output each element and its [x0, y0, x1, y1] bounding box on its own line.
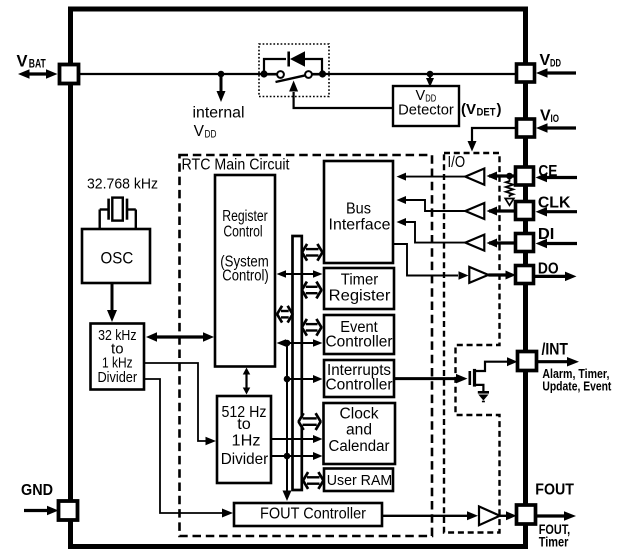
- label Alarm Timer: [542, 366, 609, 381]
- svg-text:(V: (V: [461, 101, 476, 118]
- block Event Controller box: [324, 315, 394, 354]
- wire VBAT-VDD top rail: [78, 73, 518, 75]
- wire Bus Interface to DO buffer: [393, 244, 469, 280]
- label Event Controller: [326, 319, 393, 350]
- block OSC box: [82, 229, 150, 283]
- chip boundary frame: [71, 9, 526, 547]
- switch S1 lever: [276, 75, 306, 82]
- wire bus tap vertical: [286, 343, 288, 492]
- block VDD Detector box: [393, 86, 459, 126]
- buffer CLK input: [465, 203, 484, 219]
- pin VDD: [517, 64, 535, 82]
- buffer DI input: [465, 235, 484, 251]
- crystal X1: [100, 198, 136, 229]
- svg-text:Controller: Controller: [326, 333, 393, 350]
- svg-text:/INT: /INT: [542, 341, 569, 359]
- node clock tap junction: [284, 453, 291, 460]
- svg-text:V: V: [540, 108, 551, 125]
- label Update Event: [542, 379, 612, 394]
- external DI arrow: [536, 239, 578, 249]
- svg-text:Bus: Bus: [346, 200, 371, 217]
- resistor R1 CE pulldown: [505, 179, 514, 205]
- wire FOUT buffer to pin: [500, 511, 517, 520]
- svg-text:DD: DD: [550, 57, 561, 69]
- data bus rectangle: [293, 236, 302, 490]
- label Timer Register: [329, 271, 391, 304]
- label Register Control: [220, 208, 269, 284]
- svg-text:Update, Event: Update, Event: [542, 379, 612, 394]
- bus to Bus Interface block arrow: [302, 244, 322, 261]
- svg-text:DD: DD: [205, 129, 217, 141]
- label FOUT Controller: [260, 505, 367, 522]
- wire CLK buffer to Bus Interface: [397, 196, 466, 211]
- svg-text:FOUT Controller: FOUT Controller: [260, 505, 367, 522]
- label internal: [193, 105, 245, 122]
- external GND arrow: [24, 506, 59, 516]
- svg-text:internal: internal: [193, 105, 245, 122]
- node switch left junction: [260, 70, 267, 77]
- svg-text:and: and: [346, 422, 372, 439]
- label (VDET): [461, 101, 502, 118]
- svg-text:DET: DET: [477, 106, 496, 118]
- block Bus Interface box: [324, 161, 393, 263]
- label DO: [538, 260, 559, 277]
- block FOUT Controller box: [234, 503, 382, 526]
- buffer CE input: [465, 169, 484, 185]
- wire 512Hz divider to Clock Calendar lower: [271, 452, 323, 460]
- svg-text:Calendar: Calendar: [329, 438, 390, 455]
- wire tap down arrow into FOUT Controller: [283, 491, 292, 502]
- pin DI: [516, 234, 534, 252]
- bus to User RAM block arrow: [303, 472, 323, 489]
- svg-text:BAT: BAT: [29, 58, 46, 70]
- svg-text:Detector: Detector: [398, 102, 454, 119]
- label I/O: [448, 154, 466, 171]
- svg-text:Timer: Timer: [539, 534, 569, 549]
- label VDD right: [540, 52, 562, 69]
- label GND: [21, 482, 53, 499]
- Register Control to bus block arrow: [277, 306, 292, 323]
- label DI: [538, 226, 555, 243]
- I/O cell dashed box with transistor notch: [444, 153, 500, 533]
- label VDD Detector: [398, 88, 454, 119]
- wire DI buffer to Bus Interface: [397, 218, 466, 243]
- block 32 kHz to 1 kHz Divider box: [91, 324, 145, 390]
- svg-text:1Hz: 1Hz: [232, 433, 261, 450]
- block User RAM box: [324, 469, 393, 492]
- node interrupts tap junction: [284, 376, 291, 383]
- pin DO: [516, 266, 534, 284]
- label OSC: [101, 249, 134, 267]
- buffer FOUT output: [479, 506, 500, 525]
- buffer DO output: [469, 267, 488, 283]
- label VBAT: [17, 52, 46, 70]
- wire CLK pin to buffer: [487, 207, 516, 216]
- svg-text:FOUT: FOUT: [535, 482, 574, 499]
- svg-text:V: V: [17, 52, 28, 70]
- label Bus Interface: [329, 200, 391, 233]
- wire Register Control to Event Controller double arrow: [277, 339, 323, 347]
- label FOUT comma: [539, 522, 571, 537]
- label RTC Main Circuit: [182, 157, 290, 174]
- svg-text:Divider: Divider: [97, 370, 137, 386]
- pin VBAT: [60, 65, 79, 84]
- svg-text:): ): [497, 101, 502, 118]
- node internal VDD junction: [218, 71, 225, 78]
- block Timer Register box: [324, 268, 394, 309]
- svg-text:to: to: [237, 416, 251, 433]
- svg-text:Register: Register: [329, 287, 391, 304]
- label User RAM: [327, 472, 393, 489]
- wire diode loop: [264, 59, 322, 74]
- label VIO: [540, 108, 559, 125]
- svg-text:Timer: Timer: [341, 271, 379, 288]
- wire DI pin to buffer: [487, 239, 516, 248]
- external VDD arrow: [536, 68, 576, 78]
- svg-text:V: V: [194, 123, 205, 140]
- svg-text:Control): Control): [222, 267, 268, 284]
- bus to Clock Calendar block arrow: [299, 413, 320, 430]
- external FOUT arrow: [536, 511, 576, 521]
- wire FOUT Controller to FOUT buffer: [382, 511, 478, 520]
- svg-text:IO: IO: [551, 113, 560, 125]
- label internal VDD: [194, 123, 217, 141]
- ground Q1 source: [478, 392, 489, 401]
- wire CE pin to buffer: [487, 172, 516, 181]
- svg-text:OSC: OSC: [101, 249, 134, 267]
- svg-text:V: V: [540, 52, 551, 69]
- wire VIO pin to I/O cell: [468, 128, 517, 152]
- wire Register Control to Timer Register double arrow: [277, 270, 323, 278]
- external /INT arrow: [537, 357, 579, 367]
- node register-event junction: [284, 340, 291, 347]
- diode D1 backup switch diode: [289, 51, 305, 66]
- node detector tap junction: [427, 71, 434, 78]
- pin FOUT: [517, 505, 536, 524]
- pin VIO: [517, 119, 535, 137]
- label CE: [538, 163, 557, 180]
- svg-text:GND: GND: [21, 482, 53, 499]
- block 512 Hz to 1Hz Divider box: [217, 396, 271, 483]
- node CE pulldown junction: [506, 173, 513, 180]
- external DO arrow: [534, 272, 577, 282]
- label Interrupts Controller: [326, 362, 393, 394]
- svg-text:Control: Control: [223, 223, 262, 240]
- wire 32kHz divider to FOUT controller: [144, 379, 233, 518]
- external CLK arrow: [536, 207, 578, 217]
- svg-text:Divider: Divider: [221, 451, 269, 468]
- svg-text:User RAM: User RAM: [327, 472, 393, 489]
- label 32 kHz divider: [97, 328, 137, 386]
- pin GND: [59, 501, 78, 520]
- wire Interrupts Controller to transistor gate: [394, 374, 468, 384]
- label Clock and Calendar: [329, 405, 390, 454]
- wire DO buffer to pin: [488, 271, 516, 280]
- svg-text:Controller: Controller: [326, 377, 393, 394]
- label /INT: [542, 341, 569, 359]
- external CE arrow: [536, 173, 578, 183]
- label 512 Hz divider: [221, 404, 269, 468]
- wire 512Hz divider to Clock Calendar upper: [271, 435, 323, 443]
- svg-text:RTC Main Circuit: RTC Main Circuit: [182, 157, 290, 174]
- wire detector to switch control: [289, 81, 393, 109]
- external VBAT double arrow: [18, 69, 58, 79]
- wire tap to Interrupts Controller: [287, 375, 323, 383]
- svg-text:Clock: Clock: [340, 405, 379, 422]
- label 32.768 kHz: [87, 176, 158, 193]
- label Timer: [539, 534, 569, 549]
- bus to Event Controller block arrow: [302, 319, 321, 336]
- node switch right junction: [319, 70, 326, 77]
- wire Register Control to 512Hz divider vertical double arrow: [243, 368, 251, 395]
- wire 32kHz divider to 512Hz divider: [144, 363, 216, 445]
- pin CE: [516, 167, 534, 185]
- switch S1 contacts: [267, 71, 319, 78]
- wire 32kHz divider to Register Control double arrow: [146, 332, 214, 342]
- pin /INT: [518, 352, 537, 371]
- block Clock and Calendar box: [324, 403, 396, 464]
- internal VDD tap arrow: [217, 74, 226, 102]
- pin CLK: [516, 202, 534, 220]
- block Register Control box: [215, 175, 275, 367]
- bus to Timer Register block arrow: [302, 282, 321, 299]
- block Interrupts Controller box: [324, 360, 394, 397]
- wire CE buffer to Bus Interface: [397, 173, 466, 181]
- wire OSC to 32kHz divider: [107, 283, 117, 322]
- label CLK: [538, 195, 571, 212]
- RTC Main Circuit dashed box: [180, 155, 433, 536]
- svg-text:I/O: I/O: [448, 154, 466, 171]
- external VIO arrow: [536, 123, 576, 133]
- transistor Q1 open-drain INT driver: [470, 357, 518, 392]
- svg-text:Interface: Interface: [329, 217, 391, 234]
- backup switch dotted box: [259, 44, 329, 97]
- svg-text:32.768 kHz: 32.768 kHz: [87, 176, 158, 193]
- label FOUT: [535, 482, 574, 499]
- wire rail to detector: [426, 74, 434, 87]
